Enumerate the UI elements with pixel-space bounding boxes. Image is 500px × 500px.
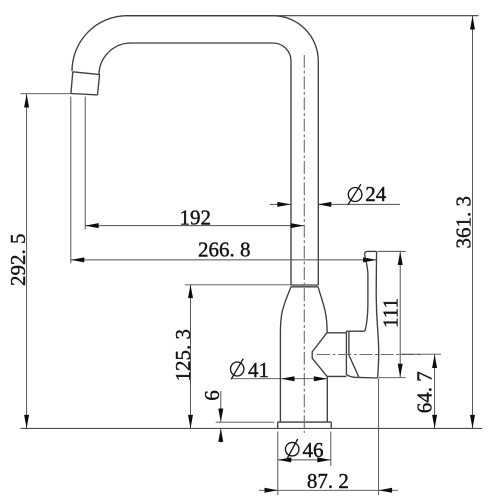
right bend inner arc [273, 43, 291, 61]
body right edge lower [326, 376, 328, 422]
arrow 87.2 right (outside pointing left) [379, 488, 393, 493]
phi symbol for 46 [285, 442, 299, 456]
arrow d46 left [278, 457, 292, 462]
valve top edge [327, 332, 347, 334]
svg-text:125. 3: 125. 3 [171, 329, 195, 382]
valve joint vertical left [345, 331, 347, 375]
dim line 64.7 [434, 355, 436, 429]
svg-text:64. 7: 64. 7 [413, 371, 437, 413]
arrow 361.3 top up [470, 16, 475, 30]
ext line flange left down [277, 432, 279, 496]
base flange left edge [277, 422, 279, 428]
arrow 192 right [291, 223, 305, 228]
dim line 125.3 [190, 285, 192, 429]
spout outlet right edge [98, 75, 100, 95]
ext line handle right down [378, 379, 380, 496]
body joint line upper [291, 284, 319, 286]
dim line 292.5 [26, 94, 28, 428]
spout outlet joint line [73, 72, 100, 75]
arrow 64.7 top up [432, 355, 437, 369]
left bend inner arc [99, 43, 131, 75]
arrow d24 right (outside pointing left) [318, 202, 332, 207]
arrow 192 left [85, 223, 99, 228]
riser pipe outer edge [317, 61, 319, 285]
arrow 6 bottom (outside pointing up) [218, 428, 223, 442]
spout outlet left edge [71, 72, 73, 94]
dim line 361.3 [472, 16, 474, 428]
handle lever right edge + base bulge [376, 251, 379, 378]
svg-text:41: 41 [248, 358, 269, 382]
svg-text:192: 192 [179, 205, 211, 229]
ground baseline [20, 427, 482, 429]
handle lever top edge [367, 250, 376, 252]
left bend outer arc [72, 16, 127, 71]
base flange top [278, 421, 332, 423]
dim line 6 lower segment [220, 428, 222, 442]
valve hex bump [312, 333, 327, 377]
svg-text:361. 3: 361. 3 [452, 196, 476, 249]
arrow 111 bottom down [398, 364, 403, 378]
arrow 64.7 bottom down [432, 415, 437, 429]
spout outlet bottom edge [71, 94, 98, 95]
riser pipe inner edge [290, 61, 292, 285]
centerlines [304, 55, 420, 433]
base flange right edge [330, 422, 332, 428]
dim line 6 upper segment [220, 391, 222, 422]
arrow 266.8 left [71, 257, 85, 262]
ext line spout bottom left [20, 93, 70, 95]
svg-text:111: 111 [378, 298, 402, 328]
arrow 361.3 bottom down [470, 415, 475, 429]
horizontal centerline of valve [317, 354, 421, 356]
diameter symbols [231, 184, 362, 459]
dimension texts [179, 182, 386, 493]
valve bottom edge [327, 375, 346, 377]
valve joint vertical right [348, 331, 350, 355]
handle base top edge [346, 330, 365, 332]
body right flare curve [318, 287, 327, 333]
dim line d24 right segment + leader [318, 203, 400, 205]
arrow d41 left [281, 376, 295, 381]
dim line d46 [278, 459, 331, 461]
arrow 125.3 bottom down [188, 415, 193, 429]
arrow d41 right [314, 376, 328, 381]
ext line handle top [378, 250, 406, 252]
right bend outer arc [273, 16, 318, 61]
ext line outlet center [84, 97, 86, 230]
vertical centerline of body [303, 55, 305, 433]
ext line flange right down [330, 432, 332, 467]
svg-text:87. 2: 87. 2 [307, 469, 349, 493]
arrow 292.5 bottom down [24, 415, 29, 429]
dim line 111 [399, 252, 401, 378]
valve chamfer diagonal [349, 355, 359, 377]
dim line 192 [85, 225, 304, 227]
dim line d41 with leader [231, 378, 327, 380]
body left flare curve [280, 287, 291, 422]
arrow 111 top up [398, 252, 403, 266]
dim line 87.2 [259, 489, 398, 491]
ext line body joint left [185, 284, 291, 286]
ext line outlet left [70, 97, 72, 264]
dim line 266.8 [71, 259, 377, 261]
valve bottom small arc [346, 375, 359, 378]
ext line handle bottom [379, 377, 406, 379]
ext line flange top left [216, 421, 274, 423]
arrow 292.5 top up [24, 94, 29, 108]
faucet top spout outer top line + extension to 361.3 [127, 15, 479, 17]
spout inner top line [131, 42, 273, 44]
spout outer top line (over pipe) [127, 15, 273, 17]
handle lever top corner [365, 251, 368, 254]
body joint line lower [291, 286, 318, 288]
arrow d46 right [317, 457, 331, 462]
arrow 87.2 left (outside pointing right) [265, 488, 279, 493]
handle lever left edge [365, 254, 368, 331]
phi symbol for 41 [231, 362, 244, 376]
arrow 125.3 top up [188, 285, 193, 299]
phi symbol for 24 [348, 188, 362, 202]
svg-text:46: 46 [303, 438, 324, 462]
svg-text:292. 5: 292. 5 [6, 233, 30, 286]
arrow 266.8 right [363, 257, 377, 262]
svg-text:24: 24 [365, 182, 387, 206]
svg-text:6: 6 [200, 390, 224, 401]
dim line d24 left segment [270, 203, 291, 205]
arrow 6 top (outside pointing down) [218, 409, 223, 423]
handle base bottom edge [359, 376, 378, 379]
svg-text:266. 8: 266. 8 [198, 238, 251, 262]
arrow d24 left (outside pointing right) [277, 202, 291, 207]
ext line valve centerline right [400, 353, 442, 355]
